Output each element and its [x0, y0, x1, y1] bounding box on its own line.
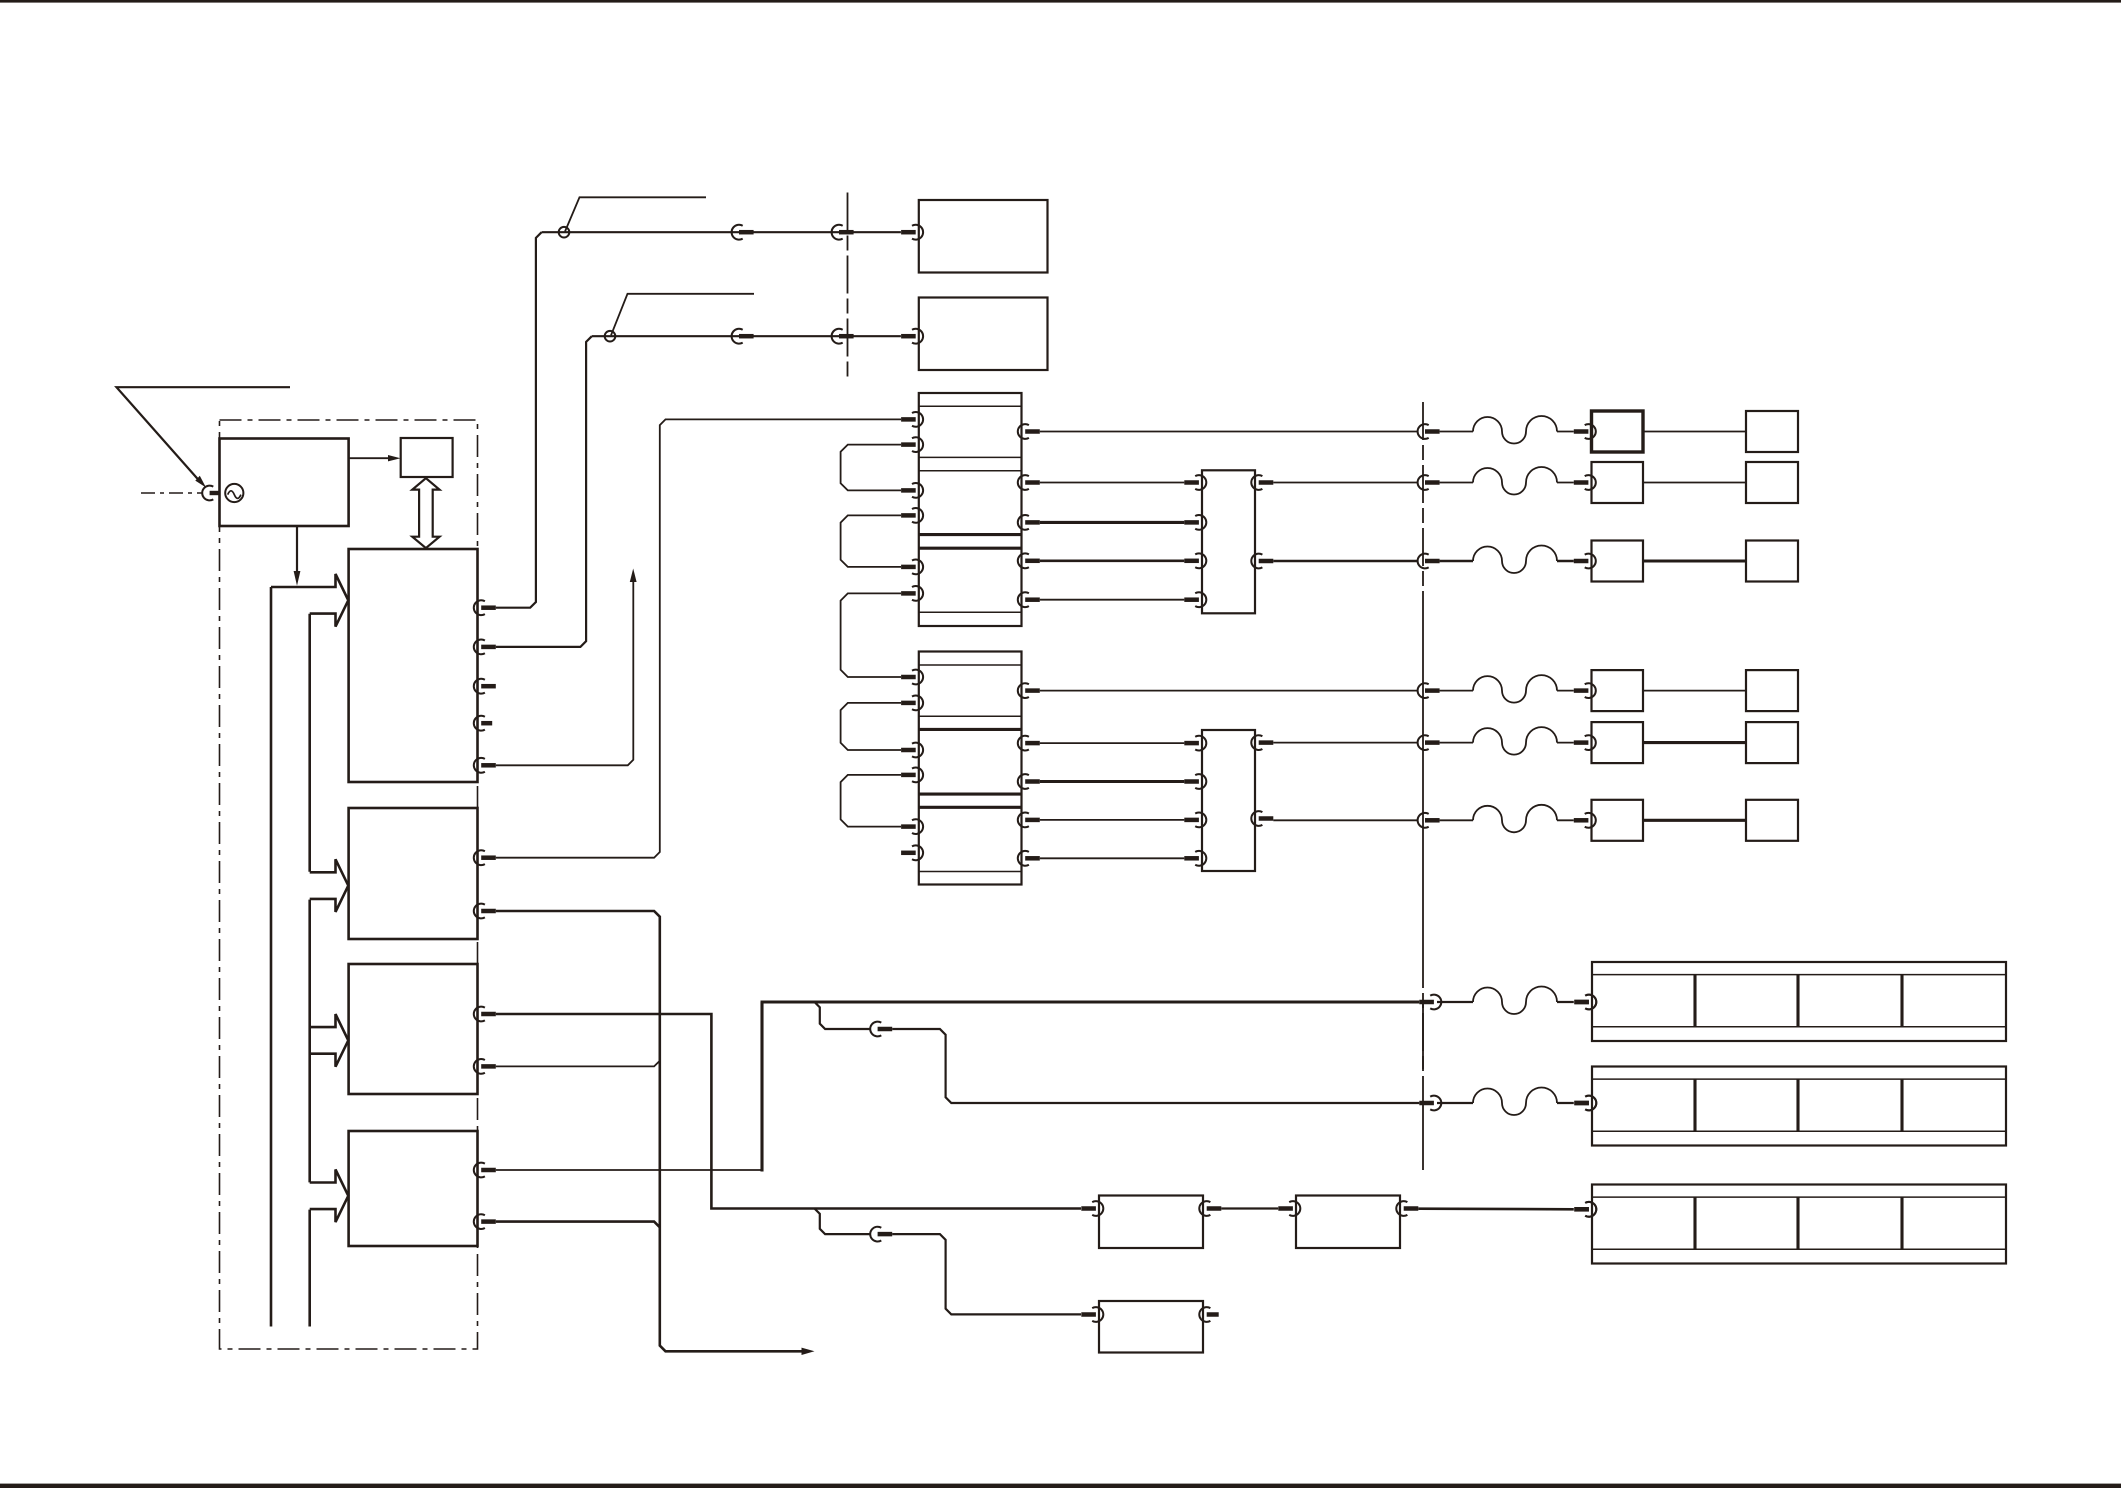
wire B branch (unit B feed)	[815, 1002, 871, 1029]
motor row 3 motor box	[1746, 541, 1798, 582]
relay R1 left pin y560	[1195, 553, 1206, 568]
unit B (striped box)	[1592, 1067, 2006, 1146]
board3 pin 1 connector	[474, 1007, 485, 1022]
motor row 3 wire to boundary	[1273, 560, 1417, 563]
sub box (top of enclosure)	[401, 438, 453, 477]
motor row 4 wire to boundary	[1040, 690, 1418, 692]
wire S2 to unit C	[1418, 1207, 1574, 1210]
motor row 1 motor box	[1746, 411, 1798, 452]
motor row 2 boundary connector	[1418, 475, 1429, 490]
chassis boundary connector wire 1	[832, 225, 843, 240]
terminal circle on wire 2	[605, 331, 616, 342]
board2 pin 2 connector	[474, 904, 485, 919]
bottom border bar	[0, 1484, 2121, 1488]
hollow arrow into main board	[271, 574, 348, 627]
box B1 input connector	[912, 225, 923, 240]
motor row 5 wire driver to motor	[1643, 741, 1746, 744]
group2 right connector 2	[1018, 736, 1029, 751]
hollow arrow into board 4	[310, 1170, 349, 1223]
heater box S1 input connector	[1092, 1201, 1103, 1216]
group2 right connector 3	[1018, 774, 1029, 789]
wire group2 to R2 (2)	[1040, 780, 1185, 783]
relay R2 right connector 2	[1251, 811, 1262, 826]
relay R1 right connector 1	[1251, 475, 1262, 490]
group2 inner line f	[919, 871, 1022, 873]
motor row 2 motor box	[1746, 462, 1798, 503]
wire PSU to sub box	[349, 457, 391, 459]
motor row 6 wire coil to driver	[1557, 819, 1574, 821]
group1 inner line e (thick)	[919, 547, 1022, 550]
group2 inner line a	[919, 664, 1022, 666]
group1 inner line b	[919, 456, 1022, 458]
relay box R2	[1202, 730, 1255, 871]
motor row 5 driver connector	[1585, 735, 1596, 750]
right chassis boundary line (dashed top)	[1422, 402, 1424, 603]
motor row 3 wire coil to driver	[1557, 560, 1574, 563]
relay R1 left pin y599	[1195, 592, 1206, 607]
motor row 1 wire coil to driver	[1557, 431, 1574, 433]
hollow arrow into board 3	[310, 1014, 349, 1067]
top chassis boundary dash line	[847, 193, 849, 379]
motor row 5 driver box	[1592, 722, 1644, 763]
group2 left pin 4	[912, 768, 923, 783]
motor row 3 harness coil	[1473, 545, 1557, 573]
arrowhead up (board1 pin5 wire)	[630, 569, 637, 583]
group2 right connector 4	[1018, 812, 1029, 827]
unit A boundary connector	[1430, 995, 1441, 1010]
group1 left pin 1	[912, 412, 923, 427]
motor row 2 wire to boundary	[1273, 482, 1417, 484]
relay R1 left pin y482	[1195, 475, 1206, 490]
relay R2 left pin y858	[1195, 851, 1206, 866]
unit A wire coil to unit	[1557, 1001, 1574, 1003]
callout leader for wire 1	[565, 197, 706, 231]
jumper loop 2 (pins 515-567)	[841, 515, 901, 567]
chassis boundary connector wire 2	[832, 329, 843, 344]
board4 pin 1 connector	[474, 1163, 485, 1178]
motor row 4 driver box	[1592, 670, 1644, 711]
motor row 5 wire to boundary	[1273, 742, 1417, 744]
inline connector on wire 2	[732, 329, 743, 344]
board1 pin 3 connector (stub)	[474, 679, 485, 694]
motor row 1 wire to boundary	[1040, 431, 1418, 433]
AC source circle with tilde	[225, 484, 243, 502]
motor row 6 wire boundary to coil	[1440, 819, 1473, 821]
group2 left pin 2	[912, 695, 923, 710]
motor row 3 driver box	[1592, 541, 1644, 582]
box T output connector (stub)	[1199, 1307, 1210, 1322]
unit A harness coil	[1473, 986, 1557, 1014]
motor row 2 wire driver to motor	[1643, 482, 1746, 484]
main board (board 1)	[349, 549, 478, 782]
hollow arrow into board 2	[310, 859, 349, 912]
motor row 1 driver box	[1592, 411, 1644, 452]
motor row 6 wire driver to motor	[1643, 819, 1746, 822]
motor row 3 wire driver to motor	[1643, 559, 1746, 562]
double-headed hollow arrow (sub box to main board)	[412, 478, 439, 548]
group1 left pin 4	[912, 508, 923, 523]
wire group2 to R2 (4)	[1040, 857, 1185, 859]
power-supply enclosure dash-dot frame	[220, 420, 478, 1349]
callout leader line (top-left)	[117, 387, 291, 481]
board 3	[349, 964, 478, 1094]
group1 left pin 3	[912, 483, 923, 498]
board1 pin 4 connector (stub)	[474, 716, 485, 731]
motor row 4 wire coil to driver	[1557, 690, 1574, 692]
motor row 4 driver connector	[1585, 683, 1596, 698]
wire B run to boundary	[892, 1029, 1419, 1103]
group1 inner line d (thick)	[919, 533, 1022, 536]
group1 inner line a	[919, 405, 1022, 407]
wire S1 to S2	[1221, 1207, 1278, 1209]
inline connector on wire B	[870, 1022, 881, 1037]
motor row 5 motor box	[1746, 722, 1798, 763]
group2 right connector 1 (motor row 4)	[1018, 683, 1029, 698]
group2 inner line e (thick)	[919, 806, 1022, 809]
unit A input connector	[1585, 995, 1596, 1010]
group1 right connector 1 (motor row 1)	[1018, 424, 1029, 439]
box B2 (top right)	[919, 298, 1048, 371]
wire board2 pin2 down (net bus)	[496, 911, 803, 1351]
motor row 2 wire coil to driver	[1557, 482, 1574, 484]
unit A (striped box) input connector	[1585, 995, 1596, 1010]
wire board1 pin5 to up-arrow	[496, 579, 634, 766]
wire D run to box T	[892, 1234, 1081, 1314]
terminal circle on wire 1	[559, 227, 570, 238]
motor row 5 harness coil	[1473, 727, 1557, 755]
motor row 3 driver connector	[1585, 554, 1596, 569]
jumper loop 1 (pins 444-490)	[841, 445, 901, 491]
inline connector on wire D	[870, 1227, 881, 1242]
unit B wire to coil	[1437, 1102, 1473, 1104]
relay R2 right connector 1	[1251, 735, 1262, 750]
unit B wire coil to unit	[1557, 1102, 1574, 1104]
motor row 6 boundary connector	[1418, 813, 1429, 828]
motor row 6 driver box	[1592, 800, 1644, 841]
wire group1 to R1 (1)	[1040, 482, 1185, 484]
motor row 2 harness coil	[1473, 467, 1557, 495]
wire board4 pin1 horizontal	[496, 1169, 764, 1171]
motor row 4 harness coil	[1473, 675, 1557, 703]
heater box S2	[1296, 1196, 1400, 1249]
motor row 2 driver connector	[1585, 475, 1596, 490]
relay box R1	[1202, 470, 1255, 613]
motor row 1 driver connector	[1585, 424, 1596, 439]
board 2	[349, 808, 478, 939]
group1 inner line f	[919, 611, 1022, 613]
motor row 4 wire boundary to coil	[1440, 690, 1473, 692]
board 4	[349, 1131, 478, 1246]
unit B boundary connector	[1430, 1096, 1441, 1111]
inline connector on wire 1	[732, 225, 743, 240]
wire PSU down to bus	[296, 526, 298, 572]
wire board4 pin2 tap to net bus	[496, 1222, 660, 1228]
wire board3 pin2 tap to net bus	[496, 1061, 660, 1067]
box T input connector	[1092, 1307, 1103, 1322]
unit A (striped box)	[1592, 962, 2006, 1041]
group2 right connector 5	[1018, 851, 1029, 866]
group1 left pin 6	[912, 586, 923, 601]
group1 left pin 5	[912, 560, 923, 575]
box B2 input connector	[912, 329, 923, 344]
unit C (striped box) input connector	[1585, 1202, 1596, 1217]
motor row 6 wire to boundary	[1273, 819, 1417, 821]
wire D branch (toner box feed)	[815, 1209, 871, 1235]
bus rail A (left)	[270, 587, 273, 1327]
board1 pin 5 connector	[474, 758, 485, 773]
relay R1 right connector 2	[1251, 554, 1262, 569]
board1 pin 1 connector	[474, 600, 485, 615]
wire group2 to R2 (1)	[1040, 742, 1185, 744]
unit A wire to coil	[1437, 1001, 1473, 1003]
group1 right connector 3	[1018, 515, 1029, 530]
board2 pin 1 connector	[474, 850, 485, 865]
group1 right connector 2	[1018, 475, 1029, 490]
right chassis boundary line (solid bottom)	[1422, 1092, 1424, 1170]
motor row 2 driver box	[1592, 462, 1644, 503]
AC inlet dash-dot lead wire	[141, 492, 202, 494]
wire A riser (board4 pin1 up)	[760, 1002, 763, 1172]
motor row 4 wire driver to motor	[1643, 690, 1746, 692]
jumper loop 3 (pins 593-677)	[841, 593, 901, 677]
box T (bottom small box)	[1099, 1301, 1203, 1353]
heater box S1	[1099, 1196, 1203, 1249]
right chassis boundary line (solid at unit A)	[1422, 1002, 1424, 1069]
wire group1 to R1 (2)	[1040, 521, 1185, 524]
motor row 1 wire boundary to coil	[1440, 431, 1473, 433]
heater box S2 output connector	[1396, 1201, 1407, 1216]
group2 inner line c (thick)	[919, 728, 1022, 731]
board4 pin 2 connector	[474, 1214, 485, 1229]
relay R2 left pin y743	[1195, 736, 1206, 751]
jumper loop 5 (pins 775-827)	[841, 775, 901, 827]
motor row 2 wire boundary to coil	[1440, 482, 1473, 484]
unit C input connector	[1585, 1202, 1596, 1217]
unit C (striped box)	[1592, 1185, 2006, 1264]
power supply unit box	[220, 439, 349, 527]
top wire 1 (to box B1)	[542, 231, 901, 233]
jumper loop 4 (pins 703-750)	[841, 703, 901, 750]
board3 pin 2 connector	[474, 1059, 485, 1074]
motor row 1 boundary connector	[1418, 424, 1429, 439]
motor row 3 boundary connector	[1418, 554, 1429, 569]
right chassis boundary line (solid middle)	[1422, 603, 1424, 950]
motor row 5 wire coil to driver	[1557, 742, 1574, 744]
relay R2 left pin y819	[1195, 812, 1206, 827]
arrowhead PSU down	[294, 571, 301, 586]
bus rail B (right, segmented)	[308, 614, 311, 1327]
group2 left pin 3	[912, 743, 923, 758]
unit column group 2 outer	[919, 652, 1022, 885]
wire group1 to R1 (3)	[1040, 559, 1185, 562]
box B1 (top right)	[919, 200, 1048, 273]
motor row 4 motor box	[1746, 670, 1798, 711]
wire A run (to unit A)	[761, 1000, 1420, 1003]
unit column group 1 outer	[919, 393, 1022, 626]
motor row 4 boundary connector	[1418, 683, 1429, 698]
wire board2 pin1 to unit column pin	[496, 419, 901, 857]
motor row 1 harness coil	[1473, 416, 1557, 444]
motor row 6 driver connector	[1585, 813, 1596, 828]
relay R2 left pin y781	[1195, 774, 1206, 789]
unit B input connector	[1585, 1096, 1596, 1111]
unit B harness coil	[1473, 1087, 1557, 1115]
group2 left pin 5	[912, 819, 923, 834]
callout leader arrowhead	[195, 476, 206, 488]
wire board1 pin2 riser (to top wire 2)	[496, 336, 592, 647]
group2 left pin 1	[912, 670, 923, 685]
group1 left pin 2	[912, 437, 923, 452]
group2 left pin 6	[912, 845, 923, 860]
top border bar	[0, 0, 2121, 3]
motor row 6 harness coil	[1473, 805, 1557, 833]
arrowhead PSU to sub box	[388, 455, 401, 461]
motor row 5 boundary connector	[1418, 735, 1429, 750]
motor row 6 motor box	[1746, 800, 1798, 841]
top wire 2 (to box B2)	[592, 335, 901, 337]
group2 inner line d (thick)	[919, 793, 1022, 796]
wire group2 to R2 (3)	[1040, 819, 1185, 821]
group1 inner line c	[919, 470, 1022, 472]
motor row 3 wire boundary to coil	[1440, 560, 1473, 563]
motor row 1 wire driver to motor	[1643, 431, 1746, 433]
AC inlet connector	[202, 486, 213, 501]
heater box S2 input connector	[1289, 1201, 1300, 1216]
callout leader for wire 2	[611, 294, 754, 336]
wire board3 pin1 (wire C to heater chain)	[496, 1014, 1081, 1209]
motor row 5 wire boundary to coil	[1440, 742, 1473, 744]
relay R1 left pin y522	[1195, 515, 1206, 530]
group1 right connector 5	[1018, 592, 1029, 607]
right chassis boundary line (dashed lower)	[1422, 950, 1424, 1092]
wire group1 to R1 (4)	[1040, 599, 1185, 601]
group1 right connector 4	[1018, 553, 1029, 568]
heater box S1 output connector	[1199, 1201, 1210, 1216]
unit B (striped box) input connector	[1585, 1096, 1596, 1111]
wire board1 pin1 riser (to top wire 1)	[496, 232, 542, 608]
board1 pin 2 connector	[474, 640, 485, 655]
arrowhead right (net bus bottom)	[802, 1348, 815, 1355]
group2 inner line b	[919, 715, 1022, 717]
